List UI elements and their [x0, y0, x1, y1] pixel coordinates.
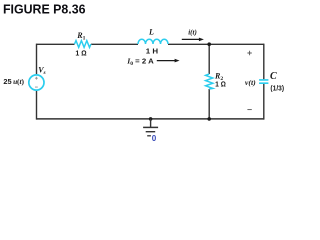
- label (1/3): [270, 86, 284, 93]
- junction node top (R2 top): [207, 42, 211, 46]
- junction node ground: [149, 117, 153, 121]
- svg-text:(1/3): (1/3): [270, 86, 284, 93]
- label i(t): [188, 28, 197, 37]
- figure title FIGURE P8.36: [3, 3, 86, 17]
- svg-text:(t): (t): [17, 77, 25, 86]
- label C: [270, 71, 277, 82]
- label node 0: [152, 134, 157, 143]
- wire left (source branch): [36, 44, 38, 120]
- inductor L (coil): [138, 39, 168, 44]
- wire top right (L to right corner): [168, 43, 264, 45]
- resistor R2 (vertical zigzag): [206, 74, 213, 89]
- wire bottom: [37, 118, 264, 120]
- minus sign (v of t): [247, 109, 251, 111]
- label R1: [76, 31, 85, 42]
- label R2: [214, 71, 223, 82]
- svg-text:0: 0: [152, 134, 157, 143]
- arrow for i(t): [182, 38, 204, 42]
- svg-text:C: C: [270, 71, 277, 82]
- wire right (capacitor branch): [263, 44, 265, 120]
- svg-text:1 Ω: 1 Ω: [215, 79, 226, 88]
- svg-text:= 2 A: = 2 A: [135, 56, 154, 65]
- ground symbol: [143, 119, 158, 136]
- label 25 u(t): [3, 77, 24, 86]
- label 1 ohm (R1): [75, 48, 87, 57]
- svg-text:v(t): v(t): [245, 78, 256, 87]
- svg-text:FIGURE P8.36: FIGURE P8.36: [3, 3, 86, 17]
- svg-text:1 Ω: 1 Ω: [75, 48, 87, 57]
- svg-text:1 H: 1 H: [146, 46, 158, 55]
- capacitor C (plates): [259, 80, 268, 83]
- resistor R1 (zigzag): [75, 41, 92, 48]
- junction node bottom (R2 bottom): [207, 117, 211, 121]
- wire R2 branch upper: [208, 44, 210, 74]
- svg-text:25: 25: [3, 77, 11, 86]
- label I0 = 2 A: [126, 56, 154, 67]
- wire top middle (R1 to L): [91, 43, 138, 45]
- wire top left (source to R1): [37, 43, 75, 45]
- arrow for I0: [157, 59, 180, 63]
- label v(t): [245, 78, 256, 87]
- label Vs: [38, 65, 46, 76]
- svg-text:L: L: [148, 28, 154, 37]
- wire R2 branch lower: [208, 89, 210, 119]
- svg-text:i(t): i(t): [188, 28, 197, 37]
- voltage source Vs (circle): [29, 75, 44, 90]
- label 1 H: [146, 46, 158, 55]
- label L: [148, 28, 154, 37]
- svg-text:Vs: Vs: [38, 65, 46, 76]
- plus sign (v of t): [247, 51, 251, 55]
- svg-text:R1: R1: [76, 31, 85, 42]
- label 1 ohm (R2): [215, 79, 226, 88]
- svg-text:I0: I0: [126, 56, 133, 67]
